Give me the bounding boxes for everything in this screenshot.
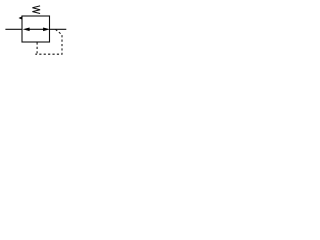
pressure regulator valve body xyxy=(22,16,50,42)
flow arrowhead right xyxy=(43,27,50,31)
pilot line dashed riser to box bottom xyxy=(36,42,38,54)
flow arrow shaft xyxy=(29,28,44,30)
pilot line dashed (tap to bottom-left corner) xyxy=(35,29,62,54)
wire outlet port xyxy=(50,28,67,30)
relief vent triangle xyxy=(19,16,23,19)
flow arrowhead left xyxy=(23,27,30,31)
wire inlet port xyxy=(5,28,22,30)
spring xyxy=(32,6,40,14)
